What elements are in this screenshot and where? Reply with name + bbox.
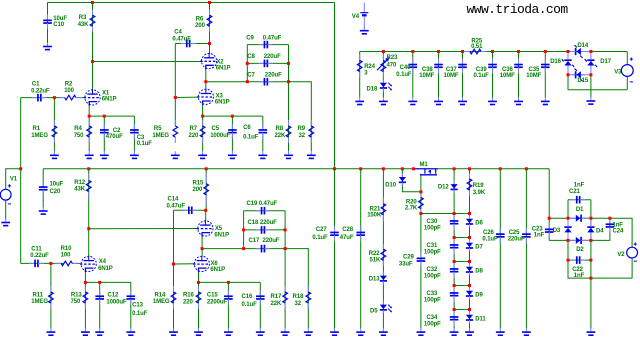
wire M1 gate lead: [420, 175, 422, 192]
ground C38: [438, 97, 440, 101]
svg-text:C9: C9: [246, 35, 254, 41]
svg-text:100: 100: [64, 88, 74, 94]
svg-text:R2: R2: [65, 81, 73, 87]
wire X5 plate: [205, 210, 207, 221]
svg-text:D13: D13: [369, 277, 380, 283]
ground C15: [227, 328, 229, 332]
svg-text:R21: R21: [370, 206, 381, 212]
capacitor C33: [453, 287, 455, 293]
wire C6 to ground: [262, 135, 264, 152]
resistor R22: [382, 244, 384, 249]
wire bridge2 D2 row: [568, 239, 591, 241]
wire C24 branch: [591, 217, 610, 219]
wire C35 drop: [544, 52, 546, 98]
wire R15 branch: [205, 169, 207, 211]
capacitor C16: [259, 290, 261, 296]
svg-text:V4: V4: [352, 14, 360, 20]
svg-text:C26: C26: [483, 230, 494, 236]
wire lower B+ rail: [43, 168, 549, 170]
svg-text:C14: C14: [168, 197, 179, 203]
svg-text:3.9K: 3.9K: [473, 190, 486, 196]
diode D9: [466, 291, 473, 296]
ground C28: [360, 328, 362, 332]
wire cap bank row C7: [247, 81, 288, 83]
wire X2 cathode to X3 plate: [205, 68, 207, 90]
svg-text:32: 32: [295, 301, 302, 307]
svg-text:2200uF: 2200uF: [207, 300, 228, 306]
triode X5: [198, 221, 213, 236]
wire bridge1 right rail: [590, 52, 592, 75]
wire R16 drop: [198, 282, 200, 328]
wire bridge1 bottom edge: [568, 74, 591, 76]
svg-text:0.47uF: 0.47uF: [263, 35, 282, 41]
wire C4 coupling branch: [175, 43, 209, 45]
svg-text:0.1uF: 0.1uF: [482, 236, 498, 242]
svg-text:6N1P: 6N1P: [98, 266, 113, 272]
svg-text:C5: C5: [212, 126, 220, 132]
wire lower bank row C19: [244, 210, 286, 212]
ground C26: [499, 328, 501, 332]
wire C20 to ground: [42, 191, 44, 208]
svg-text:C31: C31: [427, 243, 438, 249]
wire X5 cathode to X6 plate: [201, 236, 203, 257]
diode D15: [576, 71, 581, 78]
ground R16: [198, 328, 200, 332]
wire X1-plate to X2-grid: [93, 61, 202, 63]
wire C13 drop: [130, 282, 132, 328]
wire bridge1 ground drop: [590, 75, 592, 98]
resistor R7: [202, 120, 204, 126]
ground V1: [5, 219, 7, 223]
svg-text:C15: C15: [207, 293, 218, 299]
svg-text:D7: D7: [475, 244, 483, 250]
wire R1 drop: [53, 98, 55, 152]
capacitor C10: [47, 14, 49, 20]
wire R21 chain: [382, 169, 384, 329]
resistor R5: [174, 120, 176, 126]
capacitor C40: [412, 58, 414, 64]
diode D16: [564, 61, 571, 66]
wire B+ top rail: [48, 2, 335, 4]
ground R11: [50, 328, 52, 332]
svg-text:1000uF: 1000uF: [106, 299, 127, 305]
ground C12: [99, 328, 101, 332]
svg-text:10uF: 10uF: [50, 181, 64, 187]
ground C25: [525, 328, 527, 332]
wire C1 input row: [21, 97, 65, 99]
battery V4: [363, 3, 365, 13]
svg-text:C16: C16: [242, 294, 253, 300]
wire C11 row: [21, 262, 65, 264]
svg-text:0.1uF: 0.1uF: [132, 311, 148, 317]
svg-text:C8: C8: [247, 54, 255, 60]
ground V4: [363, 27, 365, 31]
wire lower cathode row X4: [85, 281, 130, 283]
capacitor C38: [438, 58, 440, 64]
svg-text:R20: R20: [406, 199, 417, 205]
wire R12 branch: [88, 169, 90, 257]
svg-text:1nF: 1nF: [574, 183, 585, 189]
svg-text:10MF: 10MF: [500, 73, 515, 79]
capacitor C24: [609, 218, 611, 224]
svg-text:22K: 22K: [271, 301, 282, 307]
svg-text:C40: C40: [400, 65, 411, 71]
svg-text:0.22uF: 0.22uF: [31, 89, 50, 95]
svg-text:R15: R15: [193, 180, 204, 186]
ground R24: [359, 97, 361, 101]
diode D10: [399, 177, 406, 182]
svg-text:0.51: 0.51: [471, 44, 483, 50]
svg-text:V1: V1: [10, 177, 18, 183]
capacitor C35: [544, 58, 546, 64]
wire bridge2 top edge C21: [568, 199, 591, 201]
capacitor C1: [32, 97, 38, 99]
wire R23 branch: [382, 52, 384, 98]
svg-text:D11: D11: [475, 316, 486, 322]
wire C5 drop: [231, 116, 233, 151]
resistor R12: [88, 174, 90, 181]
capacitor C39: [492, 58, 494, 64]
wire R4 drop: [88, 116, 90, 151]
svg-text:R24: R24: [364, 64, 375, 70]
capacitor C22: [571, 259, 577, 261]
svg-text:R16: R16: [183, 293, 194, 299]
svg-text:R4: R4: [74, 126, 82, 132]
svg-text:X5: X5: [215, 226, 223, 232]
svg-text:47uF: 47uF: [340, 235, 354, 241]
mosfet M1: [414, 168, 438, 170]
wire cap bank row C9: [247, 44, 288, 46]
resistor R6: [209, 10, 211, 15]
triode X1: [85, 90, 100, 105]
svg-text:10uF: 10uF: [53, 16, 67, 22]
svg-text:D14: D14: [577, 43, 588, 49]
svg-text:R3: R3: [79, 15, 87, 21]
source V1: [0, 189, 11, 200]
wire X6 cathode node: [198, 271, 200, 282]
svg-text:470uF: 470uF: [106, 134, 123, 140]
svg-text:C28: C28: [342, 227, 353, 233]
svg-text:0.1uF: 0.1uF: [137, 141, 153, 147]
ground C29: [420, 328, 422, 332]
wire C27 drop: [334, 169, 336, 329]
wire upper cathode bus: [203, 115, 263, 117]
svg-text:C1: C1: [32, 81, 40, 87]
capacitor C32: [453, 263, 455, 269]
svg-text:0.1uF: 0.1uF: [242, 302, 258, 308]
svg-text:D1: D1: [576, 207, 584, 213]
svg-text:C33: C33: [427, 291, 438, 297]
wire lower cap bank right rail: [284, 211, 286, 249]
svg-text:D4: D4: [596, 228, 604, 234]
svg-text:0.47uF: 0.47uF: [167, 203, 186, 209]
wire C37 drop: [462, 52, 464, 98]
svg-text:1nF: 1nF: [574, 273, 585, 279]
svg-text:470: 470: [387, 62, 397, 68]
wire multiplier diode column: [469, 214, 471, 329]
ground C36: [518, 97, 520, 101]
ground C27: [334, 328, 336, 332]
resistor R4: [88, 120, 90, 126]
svg-text:C25: C25: [509, 230, 520, 236]
resistor R14: [173, 286, 175, 292]
svg-text:220uF: 220uF: [260, 220, 277, 226]
svg-text:V3: V3: [614, 70, 622, 76]
resistor R11: [50, 286, 52, 292]
ground C2: [103, 151, 105, 155]
capacitor C19: [256, 210, 262, 212]
svg-text:C30: C30: [427, 219, 438, 225]
wire lower bank row C18: [244, 229, 286, 231]
ground bridge1: [590, 97, 592, 101]
junction dots: [91, 1, 94, 4]
svg-text:C13: C13: [132, 303, 143, 309]
capacitor C23: [548, 223, 550, 229]
svg-text:C12: C12: [108, 293, 119, 299]
capacitor C30: [453, 215, 455, 221]
diode D12: [451, 184, 458, 189]
svg-text:C24: C24: [613, 229, 624, 235]
triode X2: [202, 54, 217, 69]
ground R9: [310, 151, 312, 155]
ground R17: [284, 328, 286, 332]
svg-text:200: 200: [195, 23, 205, 29]
capacitor C31: [453, 239, 455, 245]
resistor R17: [284, 286, 286, 292]
svg-text:R10: R10: [61, 246, 72, 252]
wire R10 to X4 grid: [72, 262, 80, 264]
svg-text:220: 220: [183, 299, 193, 305]
resistor R24: [359, 55, 361, 61]
svg-text:6N1P: 6N1P: [102, 97, 117, 103]
svg-text:1nF: 1nF: [534, 233, 545, 239]
capacitor C4: [181, 43, 187, 45]
diode D11: [466, 315, 473, 320]
capacitor C13: [130, 290, 132, 296]
capacitor C14: [183, 209, 189, 211]
svg-text:C4: C4: [174, 30, 182, 36]
resistor R10: [55, 262, 61, 264]
svg-text:0.1uF: 0.1uF: [474, 73, 490, 79]
svg-text:10MF: 10MF: [419, 73, 434, 79]
svg-text:R7: R7: [190, 126, 198, 132]
svg-text:22K: 22K: [275, 133, 286, 139]
capacitor C36: [518, 58, 520, 64]
wire multiplier link 3: [454, 261, 469, 263]
triode X6: [194, 256, 209, 271]
svg-text:220uF: 220uF: [265, 73, 282, 79]
diode D8: [466, 267, 473, 272]
resistor R20: [420, 194, 422, 197]
wire C2 drop: [103, 116, 105, 151]
svg-text:1MEG: 1MEG: [153, 299, 170, 305]
capacitor C17: [256, 248, 262, 250]
svg-text:R22: R22: [369, 251, 380, 257]
wire multiplier link 5: [454, 309, 469, 311]
svg-text:100pF: 100pF: [424, 249, 441, 255]
ground C20: [42, 207, 44, 211]
diode D1: [568, 217, 591, 219]
wire X3 grid: [175, 96, 198, 98]
wire C36 drop: [518, 52, 520, 98]
capacitor C26: [499, 228, 501, 234]
ground R13: [84, 328, 86, 332]
svg-text:0.1uF: 0.1uF: [396, 72, 412, 78]
wire C16 drop: [259, 282, 261, 328]
svg-text:C34: C34: [427, 315, 438, 321]
svg-text:D8: D8: [475, 268, 483, 274]
ground R4: [88, 151, 90, 155]
wire D12 branch: [453, 169, 455, 214]
wire C38 drop: [438, 52, 440, 98]
svg-text:100: 100: [61, 252, 71, 258]
arrow R23 wiper: [377, 59, 388, 70]
wire V3 leads: [626, 52, 628, 66]
ground R14: [173, 328, 175, 332]
capacitor C37: [462, 58, 464, 64]
svg-text:C29: C29: [403, 255, 414, 261]
svg-text:C21: C21: [569, 189, 580, 195]
wire R6 branch plate X2: [209, 3, 211, 55]
svg-text:C19: C19: [247, 201, 258, 207]
wire R20 output row: [421, 213, 470, 215]
svg-text:100pF: 100pF: [424, 321, 441, 327]
capacitor C20: [42, 181, 44, 187]
ground R18: [307, 328, 309, 332]
svg-text:C3: C3: [137, 135, 145, 141]
svg-text:D17: D17: [600, 59, 611, 65]
wire C29 drop: [420, 214, 422, 329]
diode D2: [568, 239, 591, 241]
ground C6: [262, 151, 264, 155]
resistor R16: [198, 286, 200, 292]
wire cap bank left rail: [246, 45, 248, 82]
wire R7 drop: [202, 116, 204, 151]
ground R8: [288, 151, 290, 155]
svg-text:0.1uF: 0.1uF: [312, 235, 328, 241]
svg-text:D9: D9: [475, 292, 483, 298]
svg-text:6N1P: 6N1P: [214, 232, 229, 238]
ground C39: [492, 97, 494, 101]
wire upper cathode row X1: [89, 115, 134, 117]
svg-text:R12: R12: [74, 180, 85, 186]
svg-text:X1: X1: [102, 90, 110, 96]
wire R3 branch plate X1: [92, 3, 94, 91]
wire R8 drop: [288, 82, 290, 152]
svg-text:C6: C6: [243, 125, 251, 131]
svg-text:220uF: 220uF: [264, 54, 281, 60]
ground C16: [259, 328, 261, 332]
svg-text:43K: 43K: [74, 187, 85, 193]
wire X6 grid: [174, 263, 196, 265]
wire B+ right drop to lower rail: [334, 3, 336, 169]
wire V1 tap: [6, 169, 21, 190]
capacitor C27: [334, 226, 336, 232]
svg-text:C18: C18: [248, 220, 259, 226]
svg-text:1MEG: 1MEG: [152, 133, 169, 139]
resistor R9: [310, 120, 312, 126]
diode D5 LED: [380, 305, 387, 310]
svg-text:R18: R18: [293, 294, 304, 300]
wire V2 top lead: [610, 218, 632, 247]
svg-text:1MEG: 1MEG: [31, 299, 48, 305]
wire R9 branch: [289, 82, 312, 152]
svg-text:R8: R8: [276, 126, 284, 132]
diode D17: [587, 61, 594, 66]
svg-text:3: 3: [364, 70, 368, 76]
ground R1: [53, 151, 55, 155]
wire C20 branch: [42, 169, 44, 187]
resistor R21: [382, 197, 384, 204]
capacitor C21: [571, 199, 577, 201]
resistor R25: [464, 51, 470, 53]
ground C34 column: [453, 328, 455, 332]
wire multiplier link 4: [454, 285, 469, 287]
svg-text:R13: R13: [71, 293, 82, 299]
svg-text:R19: R19: [473, 183, 484, 189]
capacitor C28: [360, 226, 362, 232]
svg-text:R5: R5: [154, 126, 162, 132]
wire rail corner to bridge2: [549, 169, 568, 218]
svg-text:33uF: 33uF: [399, 261, 413, 267]
ground R5: [174, 151, 176, 155]
svg-text:100pF: 100pF: [424, 297, 441, 303]
resistor R8: [288, 120, 290, 126]
diode D7: [466, 243, 473, 248]
svg-text:C27: C27: [316, 227, 327, 233]
svg-text:www.trioda.com: www.trioda.com: [467, 2, 569, 17]
ground D5: [382, 328, 384, 332]
svg-text:0.47uF: 0.47uF: [172, 36, 191, 42]
triode X4: [81, 256, 96, 271]
wire cap bank right rail: [288, 45, 290, 82]
wire bridge2 ground drop: [590, 260, 592, 328]
wire R2 to X1 grid: [76, 97, 84, 99]
svg-text:D6: D6: [475, 220, 483, 226]
svg-text:D10: D10: [385, 183, 396, 189]
svg-text:200: 200: [193, 187, 203, 193]
ground C13: [130, 328, 132, 332]
diode D6: [466, 219, 473, 224]
svg-text:51K: 51K: [370, 257, 381, 263]
svg-text:R17: R17: [271, 294, 282, 300]
svg-text:1000uF: 1000uF: [210, 133, 231, 139]
ground C10: [47, 43, 49, 47]
capacitor C29: [420, 252, 422, 258]
capacitor C7: [258, 81, 264, 83]
capacitor C12: [99, 290, 101, 296]
svg-text:R9: R9: [298, 126, 306, 132]
svg-text:0.22uF: 0.22uF: [30, 253, 49, 259]
wire bridge1 bottom to V3 return: [568, 75, 627, 90]
svg-text:R11: R11: [33, 293, 44, 299]
wire X5 cathode bus: [202, 248, 244, 250]
wire C39 drop: [492, 52, 494, 98]
wire bridge2 D1 row: [568, 217, 591, 219]
wire bridge1 top edge: [568, 51, 591, 53]
svg-text:1MEG: 1MEG: [31, 133, 48, 139]
wire cap bank row C8: [247, 62, 288, 64]
wire heater rail: [360, 51, 628, 53]
wire C14 to R14/X6 grid line: [173, 210, 175, 328]
svg-text:43K: 43K: [78, 22, 89, 28]
capacitor C18: [256, 229, 262, 231]
wire V1 to ground: [5, 200, 7, 220]
svg-text:150K: 150K: [367, 213, 382, 219]
wire C3 drop: [133, 116, 135, 151]
svg-text:750: 750: [74, 133, 84, 139]
ground C5: [231, 151, 233, 155]
